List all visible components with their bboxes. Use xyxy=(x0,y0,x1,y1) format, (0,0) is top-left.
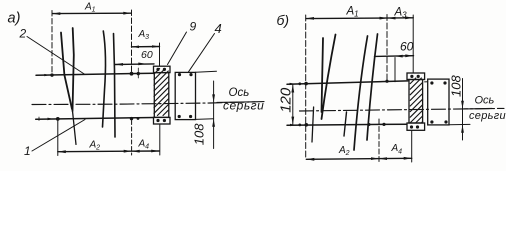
svg-text:9: 9 xyxy=(190,19,197,33)
svg-text:108: 108 xyxy=(449,75,464,97)
svg-text:1: 1 xyxy=(24,144,31,158)
svg-text:108: 108 xyxy=(192,123,207,145)
svg-text:60: 60 xyxy=(141,49,153,61)
svg-text:2: 2 xyxy=(19,26,27,40)
svg-text:серьги: серьги xyxy=(469,110,506,122)
svg-text:Ось: Ось xyxy=(229,87,250,99)
svg-text:4: 4 xyxy=(215,21,222,36)
svg-text:а): а) xyxy=(8,11,21,27)
svg-text:60: 60 xyxy=(400,39,414,53)
svg-text:Ось: Ось xyxy=(475,95,495,107)
svg-text:б): б) xyxy=(277,12,290,28)
svg-text:120: 120 xyxy=(278,87,295,113)
svg-text:серьги: серьги xyxy=(223,99,264,113)
